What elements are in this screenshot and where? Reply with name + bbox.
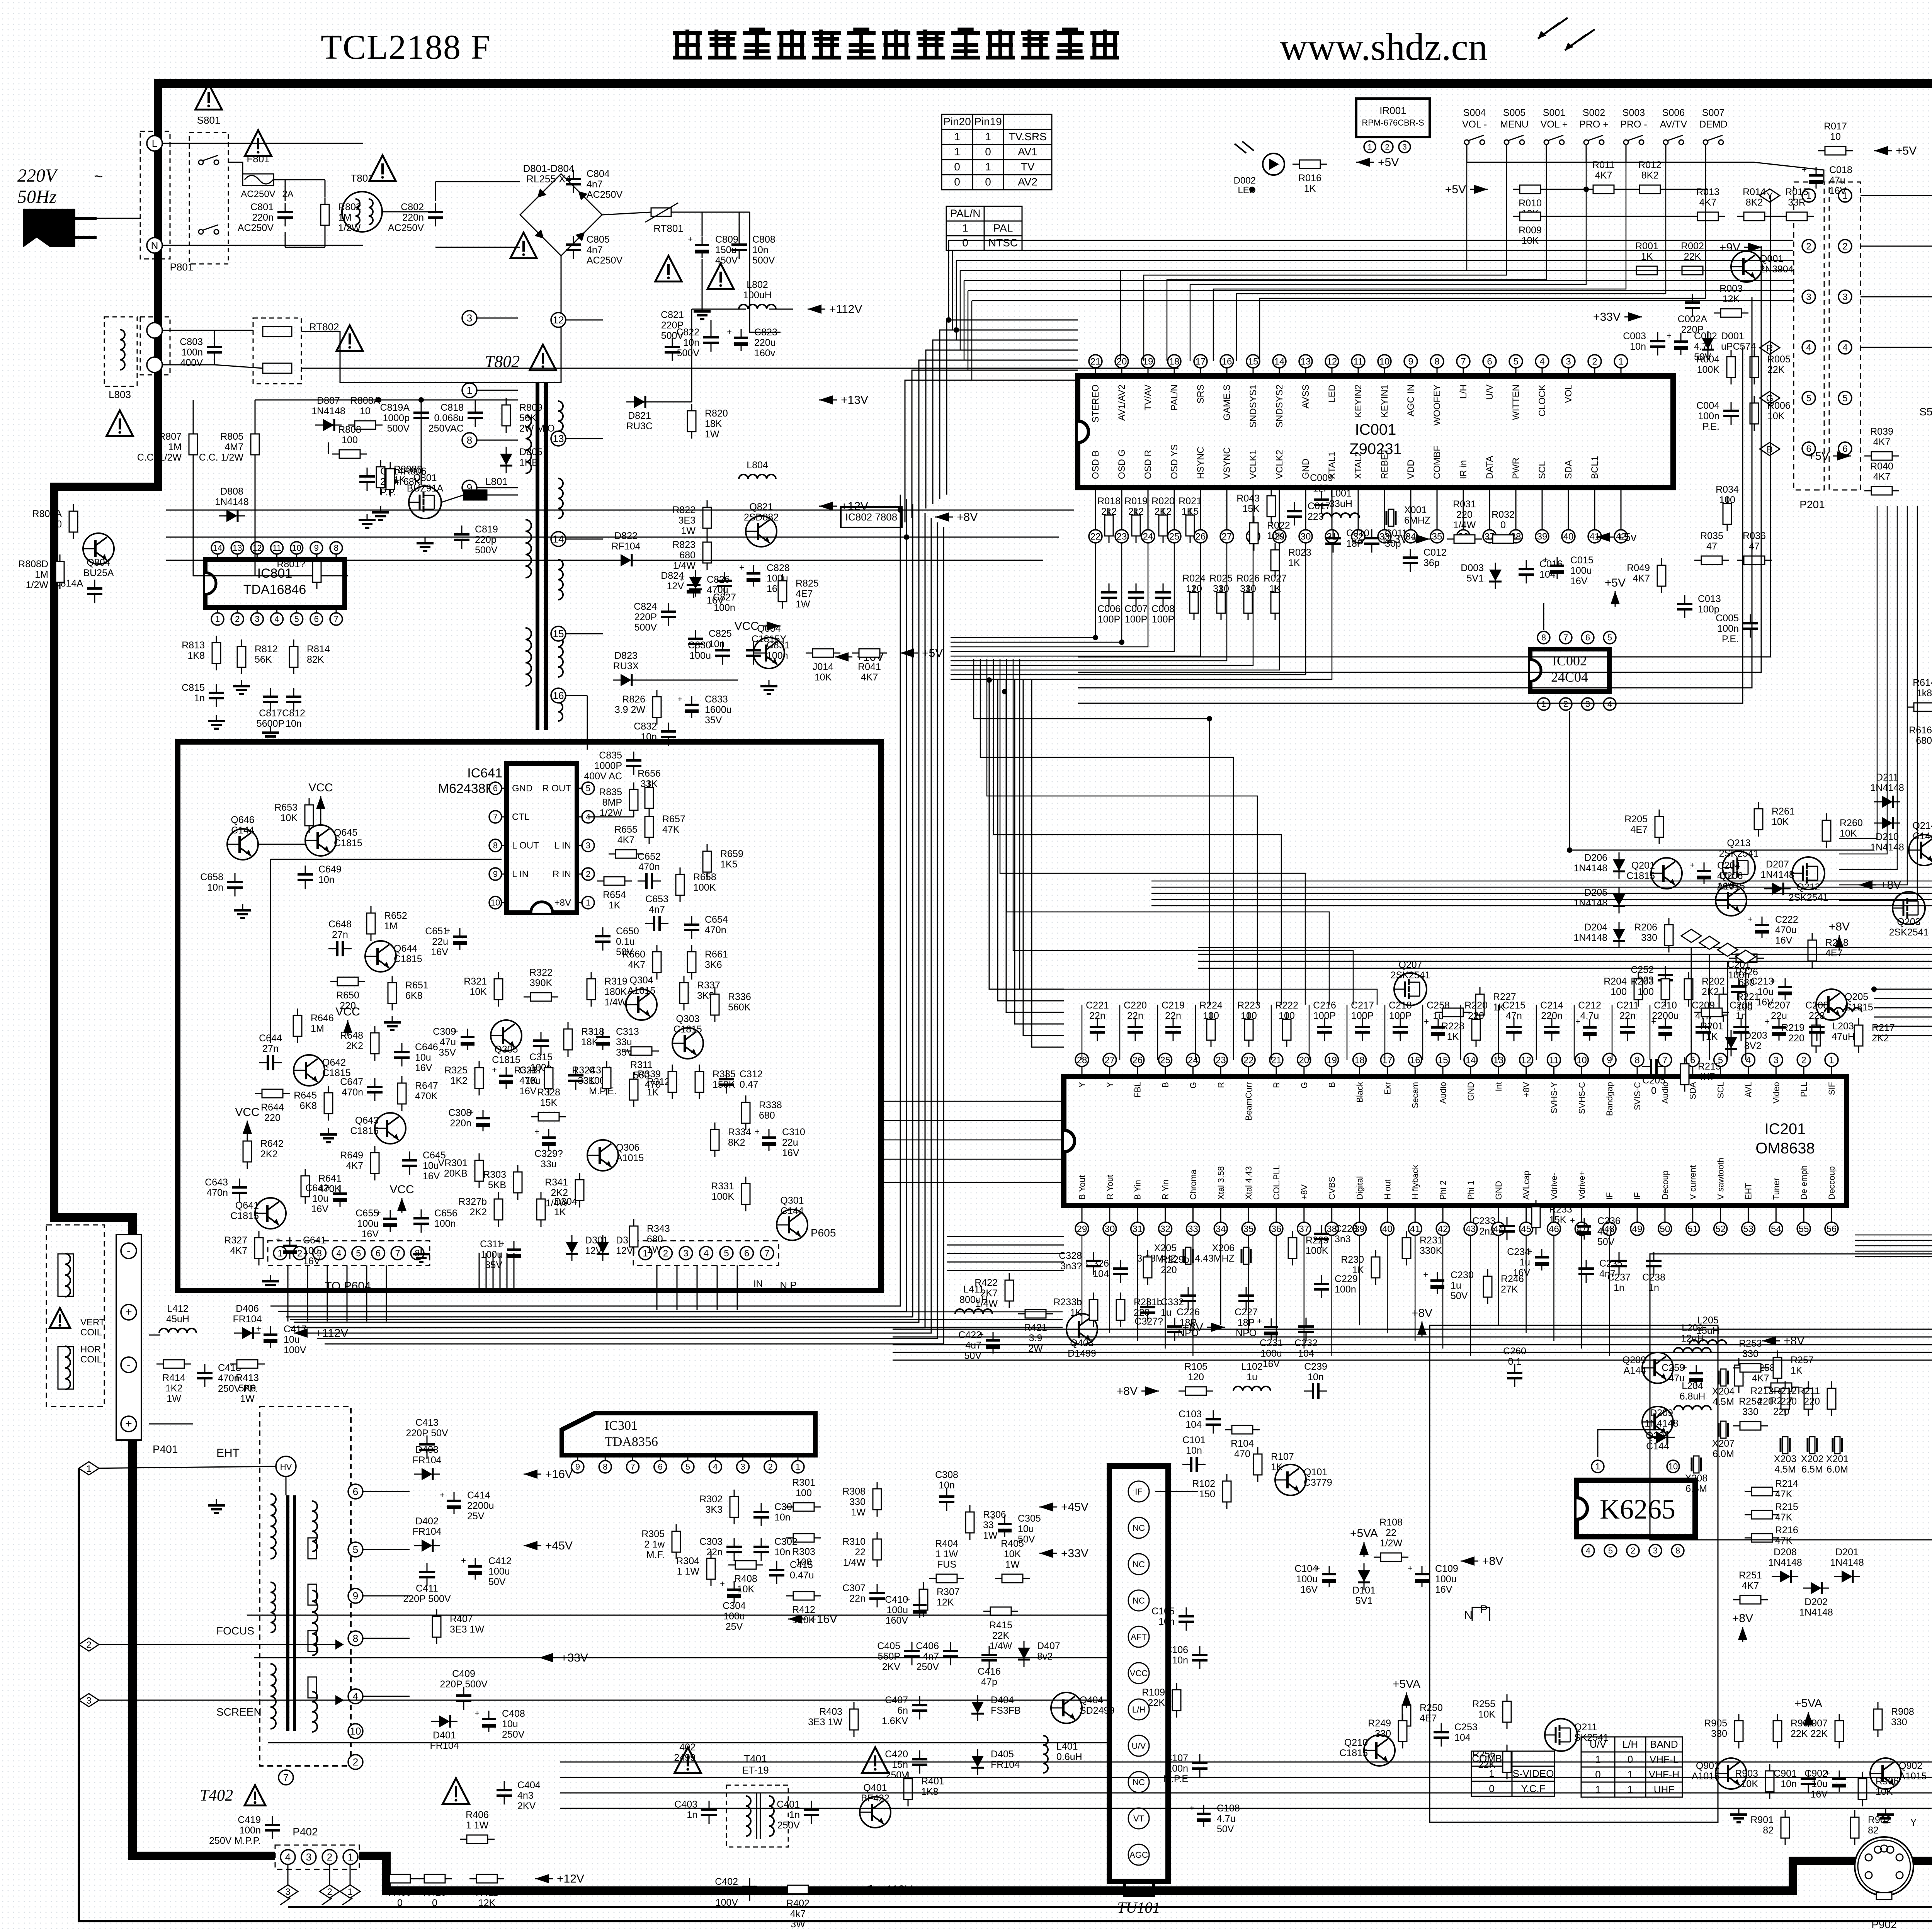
svg-text:3: 3 [306,1851,311,1863]
svg-text:10n: 10n [1172,1655,1188,1666]
svg-text:36: 36 [1271,1224,1282,1234]
resistor R305 [672,1524,680,1559]
capacitor C018 [1802,165,1823,189]
capacitor C210 [1651,1017,1672,1041]
resistor R218 [1808,933,1816,968]
svg-text:11: 11 [272,543,281,553]
svg-text:9: 9 [1607,1055,1612,1065]
zener D824 [689,570,702,597]
svg-text:52: 52 [1715,1224,1726,1234]
resistor R009 [1513,212,1548,221]
resistor R015 [1779,212,1814,221]
svg-text:C821: C821 [661,310,684,320]
diode D205 [1613,887,1625,913]
svg-text:R646: R646 [311,1013,334,1024]
svg-text:C207: C207 [1767,1000,1791,1011]
svg-text:6: 6 [1487,356,1492,367]
resistor R257 [1773,1350,1782,1385]
svg-text:12: 12 [1327,356,1337,367]
svg-text:R011: R011 [1592,160,1615,170]
svg-text:Q644: Q644 [394,943,417,954]
svg-text:6n: 6n [897,1705,908,1716]
resistor R654 [597,877,632,885]
svg-text:4n3: 4n3 [517,1790,534,1801]
svg-text:Bandgap: Bandgap [1605,1082,1614,1116]
svg-text:D205: D205 [1584,887,1607,898]
svg-text:R026: R026 [1236,573,1260,584]
svg-text:14: 14 [1274,356,1285,367]
svg-text:R109: R109 [1142,1687,1165,1698]
svg-text:5: 5 [586,784,590,793]
zener D407 [1018,1641,1030,1667]
resistor R220 [1472,1012,1480,1047]
svg-text:IF: IF [1605,1192,1614,1200]
svg-text:Y: Y [1105,1082,1115,1088]
svg-text:COMBF: COMBF [1432,446,1442,479]
svg-text:VSYNC: VSYNC [1222,447,1232,479]
svg-text:1M: 1M [168,442,182,452]
svg-text:10: 10 [292,543,301,553]
svg-text:D207: D207 [1766,859,1789,870]
wire focus/screen line bottom [288,556,1932,1907]
wire audio to IC201 horizontals [883,1101,1064,1102]
svg-text:L/H: L/H [1622,1738,1638,1750]
svg-text:3n3: 3n3 [1335,1234,1351,1245]
svg-text:R334: R334 [728,1127,751,1138]
svg-text:C652: C652 [638,851,661,862]
svg-text:C307: C307 [842,1583,866,1594]
svg-text:R655: R655 [614,824,638,835]
svg-text:100u: 100u [1570,565,1592,576]
svg-text:27: 27 [1105,1055,1115,1065]
svg-text:CVBS: CVBS [1327,1177,1337,1200]
svg-text:1K: 1K [1447,1031,1459,1042]
resistor R808 [332,450,367,458]
svg-text:5V1: 5V1 [1467,573,1484,584]
svg-text:TU101: TU101 [1117,1899,1160,1916]
svg-text:EHT: EHT [1743,1183,1753,1200]
svg-text:6: 6 [376,1248,381,1259]
svg-text:1K: 1K [525,1075,537,1086]
svg-text:2K2: 2K2 [260,1149,277,1160]
svg-text:47K: 47K [1775,1512,1793,1523]
svg-text:R905: R905 [1704,1718,1727,1729]
svg-text:180K: 180K [604,986,627,997]
svg-text:R250: R250 [1420,1702,1443,1713]
capacitor C213 [1771,976,1792,1000]
svg-text:16V: 16V [415,1063,432,1073]
transistor Q644 [365,941,396,972]
svg-text:G: G [1299,1082,1309,1088]
svg-text:3E3: 3E3 [679,515,696,526]
svg-text:1/4W: 1/4W [990,1641,1012,1651]
capacitor C312 [719,1070,734,1094]
svg-text:C819A: C819A [380,402,410,413]
svg-text:500V: 500V [677,348,700,359]
resistor R224 [1207,1012,1215,1047]
capacitor C253 [1434,1723,1449,1747]
svg-text:+8V: +8V [1299,1184,1309,1200]
svg-text:1: 1 [1628,1784,1633,1795]
svg-text:330: 330 [1891,1717,1907,1728]
svg-text:56: 56 [1827,1224,1837,1234]
svg-text:+: + [1667,331,1672,340]
capacitor C206 [1809,1018,1825,1041]
svg-text:680: 680 [759,1110,775,1121]
svg-text:C804: C804 [587,168,610,179]
capacitor C833 [677,694,699,718]
svg-text:0: 0 [962,236,968,248]
svg-text:100K: 100K [693,882,716,893]
svg-text:P801: P801 [170,261,194,273]
svg-text:R107: R107 [1271,1451,1294,1462]
capacitor C012 [1403,549,1418,572]
svg-text:R413: R413 [236,1372,259,1383]
svg-text:R322: R322 [529,967,553,978]
svg-text:10K: 10K [281,813,298,823]
svg-text:Q201: Q201 [1631,860,1655,871]
capacitor C643 [232,1179,247,1202]
svg-text:+12V: +12V [557,1872,584,1885]
svg-text:C410: C410 [885,1594,908,1605]
capacitor C009 [1314,491,1329,514]
svg-text:R645: R645 [294,1090,317,1101]
svg-text:+: + [588,1026,594,1036]
svg-text:0: 0 [954,176,960,188]
svg-text:R825: R825 [796,578,819,589]
svg-text:C832: C832 [634,721,657,732]
resistor R402 [781,1885,815,1894]
svg-text:AC250V: AC250V [587,189,622,200]
svg-text:30: 30 [1105,1224,1115,1234]
resistor R227 [1476,987,1484,1022]
resistor R256 [1503,1745,1511,1779]
svg-text:1u: 1u [1433,1010,1444,1021]
svg-text:2: 2 [1801,1055,1806,1065]
svg-text:C009: C009 [1310,473,1333,483]
svg-text:+: + [1424,1017,1429,1026]
svg-text:X201: X201 [1826,1454,1849,1464]
svg-text:FUS: FUS [937,1559,956,1570]
svg-text:R024: R024 [1182,573,1206,584]
resistor R908 [1874,1702,1882,1737]
svg-text:R212: R212 [1774,1386,1797,1396]
svg-text:C650: C650 [616,926,639,937]
capacitor C221 [1090,1018,1105,1041]
capacitor C422 [979,1330,1000,1354]
resistor R025 [1217,585,1225,620]
diode D401 [431,1715,457,1728]
svg-text:2k2: 2k2 [1128,506,1144,517]
svg-text:17: 17 [1382,1055,1393,1065]
capacitor C219 [1165,1018,1181,1041]
svg-text:PWR: PWR [1511,457,1521,479]
svg-text:100n: 100n [181,347,203,358]
svg-text:4: 4 [704,1248,709,1259]
resistor R328 [531,1112,566,1121]
resistor R826 [653,690,661,724]
svg-text:330: 330 [1742,1406,1759,1417]
svg-text:C308: C308 [448,1107,471,1118]
svg-text:250V: 250V [886,1770,908,1781]
svg-text:Vdrive-: Vdrive- [1549,1173,1559,1200]
svg-text:R325: R325 [444,1065,468,1076]
svg-text:Audio: Audio [1438,1082,1448,1104]
svg-text:R: R [1766,343,1773,354]
svg-text:22: 22 [855,1547,866,1558]
table COMB-F [1471,1751,1554,1796]
svg-text:C222: C222 [1775,914,1798,925]
capacitor C826 [679,574,701,598]
svg-text:+: + [276,1235,281,1245]
svg-text:82K: 82K [307,654,324,665]
svg-text:1u: 1u [1247,1372,1257,1383]
svg-text:C819: C819 [475,524,498,535]
svg-text:GND: GND [512,783,532,794]
capacitor C005 [1743,614,1758,638]
resistor R233 [1532,1200,1540,1235]
svg-text:+112V: +112V [829,303,862,316]
capacitor C420 [912,1750,927,1774]
svg-text:330: 330 [1240,583,1256,594]
svg-text:6.5M: 6.5M [1801,1464,1823,1475]
svg-text:C214: C214 [1540,1000,1563,1011]
tuner TU101 [1109,1466,1168,1881]
svg-text:AVLcap: AVLcap [1522,1171,1531,1200]
svg-text:C.C. 1/2W: C.C. 1/2W [137,452,182,463]
svg-text:N P: N P [780,1279,796,1291]
resistor R049 [1657,558,1666,593]
svg-text:2: 2 [1592,356,1597,367]
capacitor C218 [1393,1018,1408,1041]
svg-text:47u: 47u [440,1037,456,1048]
resistor R230 [1371,1250,1380,1285]
svg-text:AC250V: AC250V [238,223,274,233]
svg-text:9: 9 [493,869,498,879]
svg-text:C103: C103 [1179,1409,1202,1420]
svg-text:3E3 1W: 3E3 1W [450,1624,484,1635]
svg-text:0: 0 [985,146,991,158]
svg-text:4: 4 [1842,342,1847,353]
svg-text:C3779: C3779 [1304,1477,1332,1488]
svg-text:4: 4 [1539,356,1544,367]
svg-text:100u: 100u [488,1566,510,1577]
svg-text:C1815: C1815 [334,838,362,849]
svg-text:R341: R341 [545,1177,568,1188]
svg-text:16V: 16V [1435,1584,1452,1595]
svg-text:1W: 1W [1005,1559,1020,1570]
zener D302 [597,1235,609,1261]
svg-text:100u: 100u [689,650,711,661]
resistor R212 [1804,1381,1813,1416]
svg-text:22K: 22K [992,1630,1010,1641]
svg-text:104: 104 [1093,1269,1109,1279]
svg-text:+8V: +8V [1829,920,1850,933]
transistor Q304 [626,989,657,1020]
resistor R331 [742,1177,750,1211]
svg-text:5K6: 5K6 [239,1383,256,1394]
svg-text:R411: R411 [476,1887,498,1898]
svg-text:OSD YS: OSD YS [1169,444,1180,479]
resistor R658 [676,867,684,902]
svg-text:3: 3 [467,312,472,324]
svg-text:47uH: 47uH [1832,1031,1855,1042]
resistor R907 [1835,1714,1844,1748]
svg-text:1: 1 [1628,1769,1633,1780]
svg-text:Xtal 4.43: Xtal 4.43 [1244,1166,1253,1200]
capacitor C405 [904,1642,920,1665]
svg-text:R304: R304 [676,1556,699,1566]
svg-text:3: 3 [1653,1546,1658,1556]
resistor R808A [348,421,383,429]
svg-text:R647: R647 [415,1080,438,1091]
capacitor C231 [1257,1316,1278,1340]
svg-text:100P: 100P [1125,614,1147,625]
svg-text:120: 120 [1186,583,1202,594]
svg-text:1M: 1M [311,1023,324,1034]
svg-text:220: 220 [1781,1396,1797,1407]
capacitor C226 [1180,1287,1196,1310]
capacitor C812 [286,688,301,711]
svg-text:+16V: +16V [545,1468,573,1481]
transistor Q212 [1792,857,1825,889]
svg-text:Q301: Q301 [780,1195,804,1206]
svg-text:C822: C822 [676,327,699,338]
capacitor C258 [1424,1017,1445,1041]
resistor R901 [1781,1810,1789,1845]
crystal X201 [1833,1437,1842,1454]
svg-text:5: 5 [1842,393,1847,403]
svg-text:R220: R220 [1464,1000,1488,1011]
svg-text:30: 30 [1301,531,1311,542]
svg-text:330: 330 [1375,1728,1391,1739]
svg-text:1: 1 [215,614,220,624]
resistor R659 [703,844,711,879]
svg-text:SK2541: SK2541 [1574,1732,1609,1743]
inductor L801 [464,490,487,500]
transistor Q210 [1364,1735,1395,1766]
capacitor C007 [1128,583,1144,607]
svg-text:2SK2541: 2SK2541 [1391,970,1430,981]
wire bus center vertical drop [270,495,900,1306]
capacitor C236 [1570,1216,1591,1240]
transistor Q305 [491,1020,522,1051]
svg-text:3: 3 [285,1887,290,1897]
svg-text:KEYIN1: KEYIN1 [1379,384,1390,417]
svg-text:10n: 10n [774,1547,791,1558]
wire K6265 links [1598,1430,1662,1457]
resistor R403 [850,1702,858,1737]
svg-text:C312: C312 [740,1069,763,1080]
svg-text:33R: 33R [1788,197,1806,208]
svg-text:10: 10 [1577,1055,1587,1065]
capacitor C814 [359,468,375,491]
svg-text:22K: 22K [1811,1728,1828,1739]
svg-text:4E7: 4E7 [1825,948,1842,959]
svg-text:FR104: FR104 [233,1314,262,1325]
diode D808 [219,510,245,522]
svg-text:C304: C304 [723,1600,746,1611]
svg-text:OM8638: OM8638 [1755,1140,1815,1157]
svg-text:3: 3 [586,841,590,850]
svg-text:35V: 35V [439,1047,456,1058]
svg-text:24: 24 [1143,531,1153,542]
svg-text:220P 500V: 220P 500V [440,1679,488,1690]
svg-text:C1815: C1815 [230,1211,259,1221]
svg-text:R105: R105 [1184,1361,1207,1372]
svg-text:VHF-L: VHF-L [1650,1753,1679,1765]
svg-text:5: 5 [724,1248,729,1259]
resistor R205 [1655,810,1663,844]
svg-text:10: 10 [1379,356,1390,367]
svg-text:1K8: 1K8 [188,650,205,661]
capacitor C408 [474,1708,496,1732]
svg-text:R835: R835 [599,787,622,798]
svg-text:+: + [1575,1017,1580,1026]
resistor R649 [371,1146,379,1180]
capacitor C010 [1325,529,1341,553]
capacitor C214 [1544,1018,1560,1041]
svg-text:C656: C656 [434,1208,457,1219]
svg-text:100u: 100u [1260,1348,1282,1359]
capacitor C652 [638,873,661,889]
resistor R231 [1402,1231,1411,1265]
svg-text:100n: 100n [1717,623,1739,634]
resistor R822 [703,500,711,535]
inductor L803 [104,317,137,386]
resistor R645 [324,1086,333,1121]
svg-text:X001: X001 [1404,505,1427,515]
svg-text:D402: D402 [415,1516,439,1527]
svg-text:U/V: U/V [1485,384,1495,400]
svg-text:22K: 22K [1148,1697,1165,1708]
svg-text:12: 12 [1521,1055,1531,1065]
svg-text:220: 220 [1788,1033,1804,1044]
svg-text:10n: 10n [1186,1445,1202,1456]
resistor R404 [929,1574,964,1583]
svg-text:51: 51 [1687,1224,1698,1234]
wire CRT bus [1861,195,1932,196]
svg-text:+: + [1765,1017,1770,1026]
capacitor C835 [626,752,641,775]
svg-text:Y: Y [1077,1082,1087,1088]
capacitor C234 [1527,1247,1549,1270]
svg-text:AV2: AV2 [1018,176,1037,188]
svg-text:BF422: BF422 [861,1793,889,1804]
svg-text:R261: R261 [1772,806,1795,817]
svg-text:1W: 1W [851,1507,866,1518]
svg-text:NC: NC [1133,1777,1145,1787]
svg-text:+33V: +33V [1061,1547,1088,1560]
wire long bus under IC201 left [290,1311,1063,1313]
wire IC001 bottom drops [951,543,1095,638]
svg-text:L102: L102 [1241,1361,1263,1372]
svg-text:7: 7 [334,614,338,624]
capacitor C237 [1611,1252,1627,1275]
resistor R809 [502,398,510,433]
capacitor C209 [1696,1018,1711,1041]
svg-text:L OUT: L OUT [512,840,539,851]
inductor L411 [955,1309,992,1314]
capacitor C233 [1499,1217,1515,1240]
svg-text:4n7: 4n7 [649,904,665,915]
transistor Q403 [1066,1314,1097,1345]
svg-text:R303: R303 [792,1546,815,1557]
svg-text:D204: D204 [1584,922,1607,933]
svg-text:R009: R009 [1519,225,1542,236]
svg-text:39: 39 [1537,531,1548,542]
transistor Q205 [1816,989,1847,1020]
